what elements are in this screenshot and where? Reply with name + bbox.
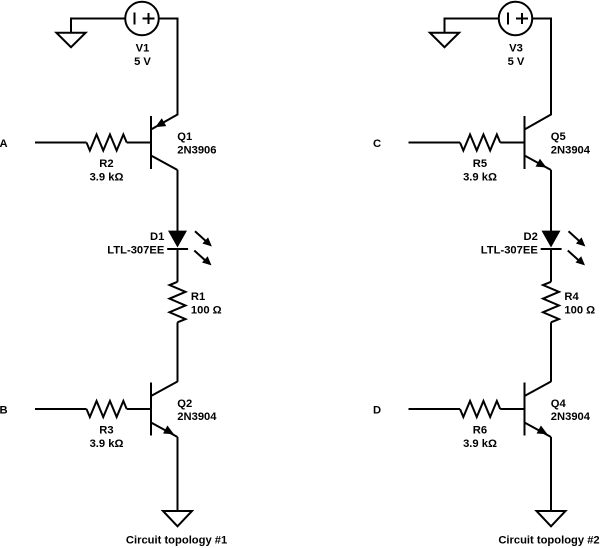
wire: LED D1 cathode to R1 bbox=[177, 249, 179, 282]
svg-text:V1: V1 bbox=[136, 43, 150, 55]
svg-text:5 V: 5 V bbox=[134, 56, 151, 68]
wire: R3 to Q2 base bbox=[127, 408, 151, 410]
resistor R3 3.9 kOhm bbox=[87, 401, 127, 417]
svg-text:Q5: Q5 bbox=[551, 131, 566, 143]
ground (bottom, Q4 emitter) bbox=[537, 511, 566, 526]
ground (top, at V1 negative terminal) bbox=[56, 33, 85, 48]
resistor R2 3.9 kOhm bbox=[87, 135, 127, 151]
wire: V1 negative terminal to top ground bbox=[71, 19, 125, 33]
wire: R1 to Q2 collector bbox=[177, 322, 179, 382]
wire: node A to R2 bbox=[35, 142, 87, 144]
svg-text:5 V: 5 V bbox=[508, 56, 525, 68]
resistor R4 100 Ohm bbox=[543, 282, 559, 322]
wire: node D to R6 bbox=[409, 408, 461, 410]
wire: V3 positive terminal to Q5 top bbox=[532, 19, 551, 116]
svg-text:2N3904: 2N3904 bbox=[177, 411, 217, 423]
svg-text:3.9 kΩ: 3.9 kΩ bbox=[90, 438, 124, 450]
svg-text:R6: R6 bbox=[473, 424, 487, 436]
svg-text:D1: D1 bbox=[150, 231, 164, 243]
transistor Q4 2N3904 (NPN) bbox=[525, 382, 552, 438]
wire: R6 to Q4 base bbox=[500, 408, 524, 410]
svg-text:V3: V3 bbox=[509, 43, 523, 55]
resistor R5 3.9 kOhm bbox=[460, 135, 500, 151]
svg-text:2N3904: 2N3904 bbox=[551, 411, 591, 423]
wire: R4 to Q4 collector bbox=[550, 322, 552, 382]
wire: R5 to Q5 base bbox=[500, 142, 524, 144]
transistor Q1 2N3906 (PNP) bbox=[151, 115, 178, 171]
svg-text:2N3904: 2N3904 bbox=[551, 144, 591, 156]
wire: Q5 to LED D2 anode bbox=[550, 170, 552, 231]
svg-text:R5: R5 bbox=[473, 158, 487, 170]
svg-text:R2: R2 bbox=[99, 158, 113, 170]
voltage source V3 bbox=[499, 2, 533, 36]
svg-text:B: B bbox=[0, 405, 8, 417]
wire: Q2 emitter to bottom ground bbox=[177, 437, 179, 511]
ground (bottom, Q2 emitter) bbox=[163, 511, 192, 526]
LED D2 LTL-307EE bbox=[541, 231, 586, 266]
svg-text:100 Ω: 100 Ω bbox=[564, 304, 595, 316]
svg-text:2N3906: 2N3906 bbox=[177, 144, 216, 156]
resistor R6 3.9 kOhm bbox=[460, 401, 500, 417]
wire: R2 to Q1 base bbox=[127, 142, 151, 144]
transistor Q5 2N3904 (NPN) bbox=[525, 115, 552, 171]
ground (top, at V3 negative terminal) bbox=[430, 33, 459, 48]
wire: V3 negative terminal to top ground bbox=[445, 19, 499, 33]
svg-text:LTL-307EE: LTL-307EE bbox=[107, 244, 165, 256]
svg-text:D: D bbox=[373, 405, 381, 417]
transistor Q2 2N3904 (NPN) bbox=[151, 382, 178, 438]
wire: Q1 to LED D1 anode bbox=[177, 170, 179, 231]
wire: Q4 emitter to bottom ground bbox=[550, 437, 552, 511]
svg-text:100 Ω: 100 Ω bbox=[191, 304, 222, 316]
svg-text:3.9 kΩ: 3.9 kΩ bbox=[90, 171, 124, 183]
svg-text:R3: R3 bbox=[99, 424, 113, 436]
LED D1 LTL-307EE bbox=[167, 231, 212, 266]
svg-text:R4: R4 bbox=[564, 291, 579, 303]
svg-text:Q2: Q2 bbox=[177, 398, 192, 410]
svg-text:3.9 kΩ: 3.9 kΩ bbox=[463, 171, 497, 183]
svg-text:C: C bbox=[373, 138, 381, 150]
wire: node C to R5 bbox=[409, 142, 461, 144]
svg-text:Q1: Q1 bbox=[177, 131, 192, 143]
svg-text:Circuit topology #1: Circuit topology #1 bbox=[126, 534, 227, 546]
wire: V1 positive terminal to Q1 top bbox=[159, 19, 178, 116]
wire: node B to R3 bbox=[35, 408, 87, 410]
voltage source V1 bbox=[125, 2, 159, 36]
svg-text:Q4: Q4 bbox=[551, 398, 567, 410]
svg-text:Circuit topology #2: Circuit topology #2 bbox=[498, 534, 599, 546]
svg-text:3.9 kΩ: 3.9 kΩ bbox=[463, 438, 497, 450]
svg-text:D2: D2 bbox=[523, 231, 537, 243]
svg-text:LTL-307EE: LTL-307EE bbox=[481, 244, 539, 256]
svg-text:R1: R1 bbox=[191, 291, 205, 303]
resistor R1 100 Ohm bbox=[170, 282, 186, 322]
svg-text:A: A bbox=[0, 138, 8, 150]
wire: LED D2 cathode to R4 bbox=[550, 249, 552, 282]
